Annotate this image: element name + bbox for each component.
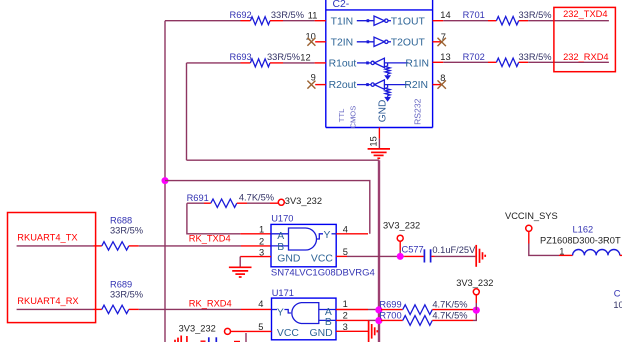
svg-text:R702: R702 [463,52,485,62]
svg-text:T2IN: T2IN [331,37,354,48]
svg-text:RS232: RS232 [413,98,423,124]
svg-text:33R/5%: 33R/5% [110,225,143,235]
svg-text:11: 11 [308,10,318,20]
svg-text:14: 14 [440,10,450,20]
wire U170 VCC to C577 [347,255,404,257]
pin 3 stub U171 [336,330,368,332]
svg-text:0.1uF/25V: 0.1uF/25V [432,245,476,255]
svg-text:RK_TXD4: RK_TXD4 [189,233,231,243]
pin 5 stub U171 [231,330,272,332]
svg-text:R1IN: R1IN [405,59,429,70]
ground at U170 pin 3 [229,267,252,277]
wire RKUART4_RX [17,308,94,310]
op-amp U170 AND gate [271,224,336,266]
svg-text:R1out: R1out [329,59,357,70]
svg-text:33R/5%: 33R/5% [519,52,552,62]
svg-text:C: C [614,288,621,298]
svg-text:Y: Y [324,230,331,241]
svg-text:B: B [277,242,284,253]
svg-text:A: A [325,307,332,318]
ground GND chip pin 15 [368,149,390,158]
svg-text:4.7K/5%: 4.7K/5% [432,300,467,310]
svg-text:R700: R700 [379,310,401,320]
capacitor plate fragment at bottom edge [186,336,188,342]
svg-text:R688: R688 [110,215,132,225]
svg-text:3V3_232: 3V3_232 [383,221,420,231]
resistor R689 [94,308,102,310]
svg-text:TTL: TTL [337,109,346,123]
pin 7 no-connect stub [433,41,441,43]
op-amp U171 AND gate (mirrored) [272,298,337,340]
wire VCCIN_SYS to L162 [529,244,559,256]
svg-text:1: 1 [259,224,264,234]
svg-text:CMOS: CMOS [348,106,357,129]
svg-text:RKUART4_TX: RKUART4_TX [17,233,77,243]
svg-text:4: 4 [343,224,348,234]
wire thick vertical bus [378,160,380,342]
no-connect X pin 7 [438,38,446,46]
svg-text:RK_RXD4: RK_RXD4 [189,299,232,309]
svg-text:T2OUT: T2OUT [391,37,426,48]
svg-text:33R/5%: 33R/5% [110,289,143,299]
svg-text:R699: R699 [379,300,401,310]
wire horizontal GND-row [187,159,380,161]
svg-text:A: A [277,231,284,242]
pin 1 stub U170 [240,233,271,235]
svg-text:1: 1 [343,299,348,309]
svg-text:232_RXD4: 232_RXD4 [563,52,608,62]
svg-text:PZ1608D300-3R0T: PZ1608D300-3R0T [540,235,621,245]
svg-text:SN74LVC1G08DBVRG4: SN74LVC1G08DBVRG4 [271,268,375,279]
svg-text:C2-: C2- [333,0,350,10]
svg-text:4.7K/5%: 4.7K/5% [239,193,274,203]
svg-text:5: 5 [258,322,263,332]
resistor R702 [433,61,444,63]
svg-text:T1IN: T1IN [331,16,354,27]
svg-text:Y: Y [277,308,284,319]
pin 8 no-connect stub [433,84,441,86]
svg-text:GND: GND [277,254,300,265]
wire RKUART4_TX [17,245,94,247]
svg-text:C577: C577 [402,244,424,254]
resistor R699 [381,309,403,311]
wire R693 loop down [186,63,188,160]
svg-text:3V3_232: 3V3_232 [179,323,216,333]
pin 10 no-connect stub [315,41,326,43]
svg-text:T1OUT: T1OUT [391,16,426,27]
ground right-facing at C577 [476,245,485,267]
svg-text:4: 4 [258,299,263,309]
buffer R1 with pulldown [357,58,409,80]
svg-text:U171: U171 [272,288,294,298]
wire pin15 to ground [378,139,380,149]
pin 2 stub U170 [241,245,271,247]
no-connect X pin 8 [438,80,446,88]
svg-text:B: B [325,317,332,328]
svg-text:R691: R691 [187,193,209,203]
resistor R688 [94,245,102,247]
svg-text:1: 1 [559,247,564,257]
svg-text:33R/5%: 33R/5% [267,52,300,62]
svg-text:R689: R689 [110,279,132,289]
wire R700 corner up [473,310,476,320]
resistor R693 [187,62,241,64]
wire net to T1IN [165,20,241,22]
buffer T2 [357,37,391,46]
svg-text:GND: GND [378,100,389,123]
pin 1 stub U171 [336,309,368,311]
ground left-facing fragment at bottom edge [175,336,181,342]
svg-text:15: 15 [368,136,378,146]
junction node A [162,177,169,184]
svg-text:R693: R693 [230,52,252,62]
svg-text:U170: U170 [271,213,293,223]
junction at C577 [397,253,404,260]
svg-text:VCC: VCC [311,254,333,265]
svg-text:4.7K/5%: 4.7K/5% [432,310,467,320]
capacitor C577 [404,255,423,257]
svg-text:33R/5%: 33R/5% [519,10,552,20]
svg-text:10: 10 [613,300,622,310]
svg-text:2: 2 [259,237,264,247]
buffer R2 with pulldown [357,80,409,102]
pin 15 stub [378,128,380,139]
pin 9 no-connect stub [315,84,326,86]
svg-text:R701: R701 [463,10,485,20]
wire vertical line A [164,21,166,342]
no-connect X pin 10 [307,38,315,46]
svg-text:L162: L162 [573,225,594,235]
ground right-facing at U171 pin 3 [369,320,378,342]
svg-text:3V3_232: 3V3_232 [285,196,322,206]
capacitor fragment at bottom edge [209,337,217,342]
wire pin3 to ground [239,257,241,267]
svg-text:R2out: R2out [329,80,357,91]
svg-text:2: 2 [343,311,348,321]
svg-text:R2IN: R2IN [404,80,428,91]
junction R699/R700 pull-up [473,307,480,314]
pin 3 stub U170 [240,256,271,258]
pin 4 stub U170 [336,233,368,235]
op-amp U172 RS232 transceiver box [326,0,433,128]
svg-text:VCCIN_SYS: VCCIN_SYS [505,211,558,221]
resistor R692 [241,20,251,22]
svg-text:3V3_232: 3V3_232 [456,278,493,288]
svg-text:12: 12 [300,53,310,63]
off-page connector box 232_TXD4/232_RXD4 [554,7,616,71]
buffer T1 [357,16,391,25]
off-page connector box RKUART4 [8,213,96,323]
svg-text:13: 13 [440,52,450,62]
svg-text:R692: R692 [230,10,252,20]
wire RK_TXD4 [139,245,241,247]
resistor R691 [187,202,204,204]
pin 4 stub U171 [241,308,272,310]
wire RK_RXD4 [139,308,241,310]
no-connect X pin 9 [307,81,315,89]
svg-text:3: 3 [259,247,264,257]
pin 2 stub U171 [336,319,368,321]
resistor R700 [381,319,403,321]
wire fragment at bottom edge [245,333,247,342]
svg-text:RKUART4_RX: RKUART4_RX [17,296,78,306]
wire R691 loop to U170 pin 1 [187,203,240,234]
junction U171 A [375,306,382,313]
power symbol 3V3_232 at R691 [278,199,284,205]
pin 5 stub U170 [336,255,347,257]
svg-text:VCC: VCC [277,328,299,339]
pin 1 stub L162 [559,254,573,256]
svg-text:GND: GND [310,328,333,339]
wire node A to U170 output [165,181,370,234]
junction U171 B [375,317,382,324]
svg-text:232_TXD4: 232_TXD4 [563,9,607,19]
svg-text:33R/5%: 33R/5% [271,10,304,20]
resistor R701 [433,20,444,22]
